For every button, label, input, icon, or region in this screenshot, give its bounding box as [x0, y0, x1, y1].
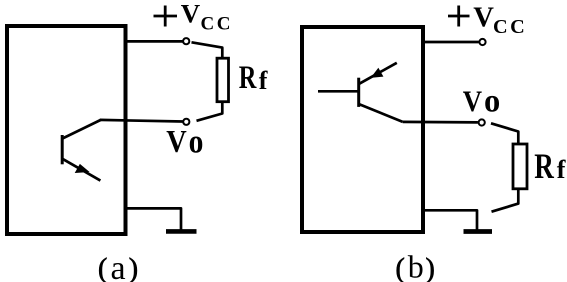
wire: transistor collector to Vo terminal (a) — [100, 120, 183, 122]
svg-text:(: ( — [98, 254, 107, 282]
resistor Rf (b) — [513, 144, 527, 189]
wire: Vo terminal to Rf top (b) — [491, 123, 518, 143]
svg-text:R: R — [534, 146, 555, 185]
transistor Q1 emitter lead (a) — [62, 159, 100, 181]
svg-text:V: V — [181, 0, 201, 28]
svg-text:R: R — [239, 60, 258, 96]
svg-text:(: ( — [396, 254, 405, 282]
svg-text:V: V — [473, 3, 494, 34]
svg-text:CC: CC — [493, 16, 527, 38]
wire: collector to Vo terminal (b) — [403, 121, 478, 124]
svg-text:f: f — [557, 155, 566, 184]
svg-text:V: V — [463, 86, 483, 119]
transistor Q2 emitter arrow (b) — [372, 69, 383, 78]
wire: Rf bottom to Vo terminal (a) — [197, 102, 223, 121]
svg-text:): ) — [426, 254, 435, 282]
ground symbol (b) — [464, 229, 493, 234]
resistor Rf (a) — [217, 58, 229, 101]
wire: block (a) right edge to +Vcc terminal — [126, 40, 183, 43]
transistor Q1 emitter arrow (a) — [76, 165, 89, 173]
ground symbol (a) — [166, 229, 197, 234]
label +Vcc (a): plus sign — [154, 15, 178, 18]
label +Vcc (b): plus sign — [448, 15, 470, 18]
svg-text:b: b — [408, 249, 424, 282]
svg-text:V: V — [166, 125, 187, 160]
transistor Q2 base bar (b) — [357, 78, 360, 107]
svg-text:f: f — [259, 66, 268, 95]
amplifier block (a) — [7, 26, 126, 234]
wire: block (b) right edge to +Vcc terminal — [423, 41, 479, 44]
transistor Q2 collector lead (b) — [359, 104, 403, 122]
wire: Rf bottom toward ground (b) — [492, 189, 519, 212]
terminal +Vcc (a) — [183, 38, 189, 44]
wire: +Vcc terminal to Rf top (a) — [192, 42, 223, 58]
svg-text:o: o — [484, 84, 500, 120]
svg-text:): ) — [129, 254, 138, 282]
svg-text:a: a — [111, 250, 126, 282]
transistor Q1 collector lead (a) — [62, 120, 101, 139]
terminal Vo (a) — [183, 119, 189, 125]
transistor Q2 emitter lead (b) — [359, 63, 397, 84]
svg-text:o: o — [189, 122, 204, 159]
wire: block (a) to ground — [126, 208, 182, 231]
terminal Vo (b) — [479, 119, 485, 125]
wire: block (b) to ground — [423, 210, 477, 229]
terminal +Vcc (b) — [479, 39, 485, 45]
amplifier block (b) — [302, 27, 423, 232]
transistor Q1 base bar (a) — [61, 135, 64, 164]
transistor Q2 base lead (b) — [318, 90, 359, 93]
svg-text:CC: CC — [201, 14, 233, 35]
